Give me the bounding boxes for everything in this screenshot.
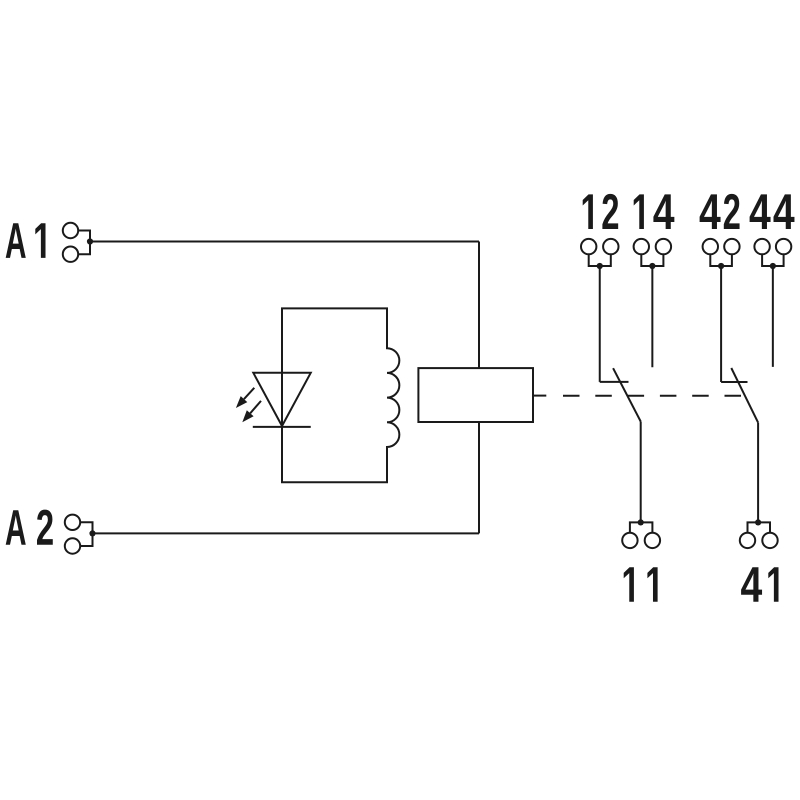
terminal 12 clamp circle left (581, 239, 596, 254)
relay actuator box K1 (418, 368, 533, 422)
wire 44 drop (772, 266, 774, 367)
label A2 (6, 510, 53, 545)
wire actuator stub (533, 395, 546, 397)
terminal A1 clamp circle lower (63, 247, 78, 262)
wire A2 clamp link (80, 522, 92, 546)
terminal 44 clamp circle right (776, 239, 791, 254)
terminal 14 clamp circle left (634, 239, 649, 254)
junction A2 (89, 530, 95, 536)
wire 41 clamp link (748, 522, 771, 532)
LED D1 emission arrow 2 head (242, 410, 253, 422)
coil box K1 outline with winding bumps (282, 308, 399, 482)
junction 41 (755, 519, 761, 525)
wire right drop (A1 to coil box) (478, 242, 480, 534)
wire 11 clamp link (630, 522, 653, 532)
wire contact 1 common drop (640, 422, 642, 523)
terminal A2 clamp circle lower (65, 538, 80, 553)
LED D1 triangle (253, 373, 310, 426)
label 12 (583, 194, 618, 229)
wire A1 top rail (90, 241, 479, 243)
wire 44 clamp link (762, 254, 784, 266)
label 14 (634, 194, 675, 229)
terminal 42 clamp circle left (703, 239, 718, 254)
contact 1 moving blade (613, 368, 641, 421)
terminal 41 clamp circle right (762, 533, 777, 548)
wire 14 clamp link (641, 254, 663, 266)
terminal 11 clamp circle left (622, 533, 637, 548)
wire 42 clamp link (710, 254, 732, 266)
wire 12 clamp link (589, 254, 611, 266)
junction 11 (638, 519, 644, 525)
label 44 (750, 194, 795, 229)
LED D1 emission arrow 1 shaft (244, 388, 254, 399)
wire 42 drop (720, 266, 722, 382)
terminal 12 clamp circle right (603, 239, 618, 254)
terminal 41 clamp circle left (740, 533, 755, 548)
contact 2 fixed bar (42) (721, 381, 747, 383)
wire 14 drop (651, 266, 653, 367)
contact 2 moving blade (731, 368, 758, 423)
label 11 (624, 567, 658, 602)
junction 14 (649, 263, 655, 269)
wire A1 clamp link (78, 231, 90, 255)
label A1 (6, 223, 46, 258)
terminal 11 clamp circle right (645, 533, 660, 548)
wire contact 2 common drop (757, 423, 759, 523)
terminal A2 clamp circle upper (65, 515, 80, 530)
terminal 44 clamp circle left (754, 239, 769, 254)
LED D1 cathode bar (253, 426, 311, 428)
label 41 (741, 567, 778, 602)
wire A2 bottom rail (93, 532, 480, 534)
junction 44 (770, 263, 776, 269)
label 42 (700, 194, 740, 229)
contact 1 fixed bar (12) (600, 381, 629, 383)
junction 42 (718, 263, 724, 269)
LED D1 emission arrow 1 head (236, 396, 247, 408)
junction A1 (87, 238, 93, 244)
terminal A1 clamp circle upper (63, 223, 78, 238)
terminal 14 clamp circle right (656, 239, 671, 254)
wire 12 drop (599, 266, 601, 382)
junction 12 (597, 263, 603, 269)
mechanical link dashed line (563, 395, 741, 397)
terminal 42 clamp circle right (724, 239, 739, 254)
LED D1 emission arrow 2 shaft (250, 401, 261, 413)
